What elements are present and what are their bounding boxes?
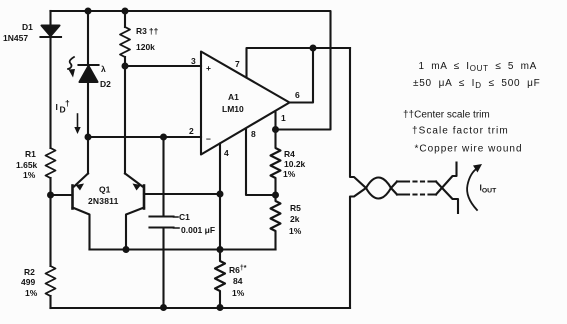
- photodiode D2: [79, 64, 99, 66]
- svg-text:+: +: [206, 63, 211, 73]
- svg-text:C1: C1: [179, 212, 190, 222]
- svg-text:8: 8: [251, 129, 256, 139]
- wire pin2 line: [88, 136, 201, 138]
- wire pin6 output: [290, 48, 314, 103]
- svg-text:D1: D1: [22, 22, 33, 32]
- svg-text:†Scale factor trim: †Scale factor trim: [412, 126, 509, 137]
- svg-text:D2: D2: [100, 79, 111, 89]
- wire R3 top: [124, 11, 126, 27]
- wire pin4 node down: [219, 194, 221, 250]
- svg-text:1%: 1%: [283, 169, 296, 179]
- wire Q1 right base to pin4 node: [144, 193, 220, 195]
- wire pin4 down: [219, 144, 221, 195]
- resistor R2: [46, 266, 56, 296]
- wire D1 branch top: [49, 11, 51, 26]
- node R3 bottom: [122, 63, 129, 70]
- node R1/R2/base: [47, 192, 54, 199]
- svg-text:1%: 1%: [25, 288, 38, 298]
- svg-text:*Copper wire wound: *Copper wire wound: [415, 144, 523, 155]
- photon arrow: [68, 57, 74, 69]
- transistor Q1 right bar: [143, 186, 146, 209]
- Q1 left emitter: [74, 174, 88, 187]
- Q1 right emitter: [125, 174, 143, 187]
- node pin6/7: [310, 45, 317, 52]
- svg-text:R2: R2: [24, 267, 35, 277]
- svg-text:120k: 120k: [136, 42, 155, 52]
- node R6 bottom rail: [217, 304, 224, 311]
- node pin1: [272, 126, 279, 133]
- svg-text:1.65k: 1.65k: [16, 160, 38, 170]
- node collectors join: [123, 246, 130, 253]
- transistor Q1 left bar: [71, 186, 74, 209]
- svg-text:IOUT: IOUT: [480, 183, 498, 195]
- resistor R1: [46, 148, 56, 178]
- resistor R4: [271, 130, 281, 196]
- svg-text:7: 7: [235, 59, 240, 69]
- op-amp A1 triangle: [201, 52, 290, 155]
- node top rail D2: [85, 8, 92, 15]
- twisted pair eye: [366, 178, 391, 189]
- wire pin8: [246, 129, 276, 196]
- svg-text:††Center scale trim: ††Center scale trim: [403, 110, 490, 121]
- node R4/R5/pin8: [272, 192, 279, 199]
- svg-text:LM10: LM10: [222, 104, 244, 114]
- svg-text:1%: 1%: [23, 170, 36, 180]
- wire D2 branch: [87, 11, 89, 65]
- svg-text:R4: R4: [284, 149, 295, 159]
- wire pin7 riser and line to output pair: [247, 48, 351, 78]
- wire twisted pair lower lead: [350, 188, 366, 308]
- svg-text:−: −: [206, 134, 211, 144]
- svg-text:2: 2: [189, 126, 194, 136]
- wire Q1 left base: [51, 194, 73, 196]
- svg-text:1 mA ≤ IOUT ≤ 5 mA: 1 mA ≤ IOUT ≤ 5 mA: [419, 61, 538, 73]
- wire D1 to R1: [49, 37, 51, 148]
- svg-text:Q1: Q1: [99, 185, 111, 195]
- wire node to R2: [49, 195, 51, 266]
- svg-text:4: 4: [224, 148, 229, 158]
- svg-text:±50 μA ≤ ID ≤ 500 μF: ±50 μA ≤ ID ≤ 500 μF: [413, 78, 540, 90]
- node top rail R3: [122, 8, 129, 15]
- twisted pair dashed section: [397, 180, 436, 182]
- svg-text:6: 6: [295, 90, 300, 100]
- node pin2 left: [85, 134, 92, 141]
- svg-text:1: 1: [281, 113, 286, 123]
- svg-text:A1: A1: [228, 92, 239, 102]
- svg-text:R5: R5: [290, 203, 301, 213]
- svg-text:499: 499: [21, 277, 35, 287]
- svg-text:1%: 1%: [232, 288, 245, 298]
- svg-text:1%: 1%: [289, 226, 302, 236]
- svg-text:1N457: 1N457: [3, 33, 28, 43]
- node C1 top: [160, 134, 167, 141]
- wire R3 node down to Q1 right emitter: [124, 66, 126, 174]
- wire D2 to Q1 left emitter: [87, 82, 89, 174]
- svg-text:10.2k: 10.2k: [284, 159, 306, 169]
- arrow IOUT: [467, 168, 477, 210]
- wire twisted pair upper lead: [350, 48, 366, 188]
- svg-text:2k: 2k: [290, 214, 300, 224]
- resistor R5: [271, 195, 281, 250]
- twisted pair right X: [436, 182, 458, 214]
- node pin4/base: [217, 191, 224, 198]
- wire R2 to bottom rail: [49, 296, 51, 308]
- wire collector line: [90, 248, 276, 250]
- Q1 right collector: [126, 208, 144, 250]
- wire R3 bottom: [124, 57, 126, 66]
- wire R1 to node: [49, 178, 51, 195]
- svg-text:λ: λ: [101, 64, 106, 74]
- wire pin1: [274, 113, 276, 130]
- current arrow ID: [77, 114, 79, 129]
- node C1 bottom rail: [160, 304, 167, 311]
- svg-text:2N3811: 2N3811: [88, 196, 119, 206]
- Q1 left collector: [73, 208, 90, 250]
- svg-text:R1: R1: [25, 149, 36, 159]
- diode D1: [42, 26, 60, 37]
- wire top rail with right vertical down to pin1 line: [51, 11, 331, 130]
- wire pin3 line: [125, 65, 201, 67]
- wire bottom rail: [51, 307, 351, 309]
- node R6 top: [217, 246, 224, 253]
- svg-text:R6†*: R6†*: [229, 265, 247, 275]
- svg-text:0.001 μF: 0.001 μF: [181, 225, 215, 235]
- svg-text:†: †: [65, 98, 70, 108]
- svg-text:3: 3: [191, 56, 196, 66]
- svg-text:I: I: [56, 102, 58, 112]
- svg-text:84: 84: [233, 276, 243, 286]
- twisted pair after X2: [391, 182, 397, 189]
- resistor R3: [120, 27, 130, 57]
- resistor R6: [215, 250, 225, 308]
- svg-text:R3††: R3††: [136, 26, 159, 36]
- capacitor C1: [174, 217, 180, 228]
